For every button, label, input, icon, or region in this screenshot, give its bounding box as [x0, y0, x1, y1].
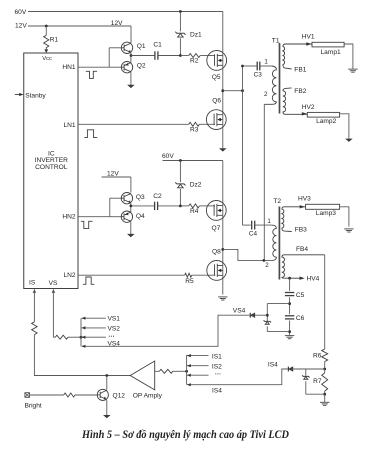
- svg-text:C5: C5: [296, 292, 305, 299]
- svg-text:T2: T2: [273, 198, 281, 205]
- wire VS4 line to bus: [82, 315, 251, 346]
- node C3 corner: [241, 65, 244, 68]
- svg-text:INVERTER: INVERTER: [35, 157, 68, 164]
- wire Q1 emitter to node: [130, 52, 132, 55]
- wire Lamp1 to ground: [344, 44, 353, 69]
- wire HN2 to base bus: [78, 216, 110, 218]
- zener on IS4 line: [302, 375, 309, 377]
- resistor R1 vertical: [45, 26, 47, 35]
- waveform pulse at HN1: [86, 71, 97, 78]
- wire VS pin down: [53, 289, 55, 337]
- IC U1 INVERTER CONTROL box: [24, 53, 78, 289]
- svg-text:HV4: HV4: [307, 276, 320, 283]
- wire resistor to Q12 base: [75, 394, 97, 396]
- node bridge2 midpoint: [221, 248, 224, 251]
- svg-text:FB2: FB2: [294, 88, 306, 95]
- svg-text:Bright: Bright: [25, 403, 42, 410]
- wire 12V stub ch2: [102, 176, 131, 178]
- resistor R2: [180, 55, 188, 57]
- transistor Q12: [97, 389, 108, 400]
- node Dz2 bottom gate node: [179, 205, 182, 208]
- resistor op-amp input: [155, 370, 160, 372]
- lamp Lamp3: [306, 204, 340, 209]
- ground arrow below Q4: [127, 234, 135, 237]
- label dots VS3: [109, 336, 110, 337]
- mosfet Q7: [206, 201, 226, 221]
- transistor Q4: [121, 211, 132, 222]
- svg-text:Q3: Q3: [136, 194, 145, 201]
- mosfet Q6: [206, 110, 226, 130]
- wire 12V rail horizontal: [28, 25, 131, 27]
- svg-text:Lamp2: Lamp2: [316, 118, 336, 125]
- wire Q3 emitter to node: [130, 203, 132, 206]
- wire Q4 emitter to node: [130, 206, 132, 212]
- svg-text:Dz1: Dz1: [190, 31, 202, 38]
- wire IS4 zener branch: [305, 369, 307, 376]
- transistor Q3: [121, 193, 132, 204]
- svg-text:VS2: VS2: [108, 325, 121, 332]
- wire Q4 collector down: [130, 221, 132, 234]
- resistor R6: [324, 255, 326, 349]
- svg-text:FB1: FB1: [294, 67, 306, 74]
- arrow HV4: [300, 277, 305, 280]
- arrow IS4 at bus: [187, 383, 191, 386]
- lamp Lamp2: [307, 112, 339, 117]
- wire base bus Q3 Q4: [109, 198, 111, 217]
- wire C5 to C6 junction: [289, 297, 291, 314]
- svg-text:VS: VS: [49, 280, 58, 287]
- svg-text:IS2: IS2: [212, 363, 222, 370]
- wire base bus Q1 Q2: [108, 48, 110, 67]
- svg-text:12V: 12V: [107, 170, 119, 177]
- arrow HV3: [300, 205, 305, 208]
- resistor R4: [180, 205, 188, 207]
- svg-text:12V: 12V: [15, 23, 27, 30]
- node VS bus junction: [80, 336, 83, 339]
- resistor on IS line: [32, 322, 38, 335]
- svg-text:IS4: IS4: [212, 388, 222, 395]
- svg-text:T1: T1: [272, 38, 280, 45]
- wire VS3 line: [82, 336, 106, 338]
- wire to C3: [243, 65, 257, 67]
- svg-text:IS1: IS1: [212, 354, 222, 361]
- wire Q12 emitter down: [106, 400, 108, 415]
- pin VS arrow into IC: [52, 289, 55, 293]
- wire 60V channel2 stub: [163, 160, 223, 162]
- wire VS1 line: [82, 317, 106, 319]
- node T1 pin2 joins T2 pin2: [263, 259, 266, 262]
- svg-text:Vcc: Vcc: [42, 56, 52, 62]
- node HV4/C5 junction: [288, 277, 291, 280]
- wire zener branch bottom: [267, 331, 289, 333]
- transformer T2 secondary HV3-FB3: [282, 207, 306, 232]
- earth ground at Lamp3: [344, 228, 353, 230]
- wire Bright to resistor: [30, 394, 64, 396]
- node R6/R7/IS4 junction: [323, 368, 326, 371]
- diode on VS4 line: [249, 313, 251, 318]
- svg-text:C4: C4: [249, 231, 258, 238]
- svg-text:R6: R6: [313, 353, 322, 360]
- wire T1 pin2 vertical down to T2 pin2: [263, 104, 265, 260]
- transformer T1 core: [279, 43, 281, 114]
- svg-text:Hình 5 – Sơ đồ nguyên lý mạch: Hình 5 – Sơ đồ nguyên lý mạch cao áp Tiv…: [81, 428, 290, 441]
- svg-text:1: 1: [264, 59, 268, 66]
- svg-text:R2: R2: [190, 58, 199, 65]
- svg-text:R5: R5: [185, 278, 194, 285]
- wire IS4 zener bottom to R7 bottom: [306, 393, 325, 395]
- earth ground below Q8: [218, 296, 227, 298]
- ground arrow below Q12: [103, 415, 111, 418]
- wire node to C1: [131, 55, 154, 57]
- wire C3 to T1 pin1: [260, 65, 271, 67]
- zener Dz1: [179, 12, 181, 32]
- transistor Q2: [121, 61, 132, 72]
- svg-text:HV3: HV3: [298, 195, 311, 202]
- transformer T1 secondary HV1-FB1: [283, 44, 312, 69]
- wire IS to op-amp output: [34, 335, 130, 376]
- resistor R3 on LN1 line: [78, 123, 189, 125]
- svg-text:CONTROL: CONTROL: [35, 164, 68, 171]
- label dots IS3: [215, 373, 216, 374]
- wire bridge2 midpoint to T2 pin2: [223, 249, 272, 260]
- svg-text:HV1: HV1: [302, 34, 315, 41]
- node VS4 tap: [266, 314, 269, 317]
- svg-text:60V: 60V: [15, 9, 27, 16]
- op-amp U2 triangle: [130, 361, 155, 390]
- svg-text:C1: C1: [153, 42, 162, 49]
- svg-text:HV2: HV2: [302, 104, 315, 111]
- svg-text:Stanby: Stanby: [25, 92, 46, 99]
- svg-text:VS1: VS1: [108, 316, 121, 323]
- pin IS arrow into IC: [33, 289, 36, 293]
- svg-text:Q8: Q8: [212, 248, 221, 255]
- node Dz1 top on 60V rail: [179, 10, 182, 13]
- wire IS3 line: [187, 374, 209, 376]
- pin Stanby arrow: [15, 94, 22, 96]
- capacitor C1: [154, 51, 156, 59]
- mosfet Q5: [207, 51, 227, 71]
- arrow HV2: [302, 112, 307, 115]
- svg-text:FB4: FB4: [296, 246, 308, 253]
- svg-text:R3: R3: [190, 126, 199, 133]
- arrow HV1: [306, 42, 311, 45]
- wire Q12 collector up: [106, 376, 108, 390]
- svg-text:HN1: HN1: [62, 64, 76, 71]
- earth ground at Lamp1: [348, 68, 357, 70]
- node Q12 collector tap: [105, 374, 108, 377]
- wire junction left to zener branch: [267, 303, 289, 305]
- node C5/C6 junction: [288, 302, 291, 305]
- wire 60V rail horizontal: [28, 11, 223, 13]
- ground arrow at Lamp2: [345, 139, 353, 142]
- wire 12V down to Q3 collector: [130, 177, 132, 193]
- wire midpoint vertical to C3 and C4: [242, 66, 244, 225]
- wire node to C2: [131, 205, 154, 207]
- svg-text:IS: IS: [29, 280, 36, 287]
- wire IS pin down: [33, 289, 35, 322]
- ground arrow bridge1: [219, 148, 227, 151]
- svg-text:12V: 12V: [111, 20, 123, 27]
- arrow VS4 at bus: [82, 345, 86, 348]
- node midpoint tap corner: [241, 89, 244, 92]
- svg-text:Q5: Q5: [212, 74, 221, 81]
- svg-text:C6: C6: [296, 315, 305, 322]
- wire 12V down to Q1 collector: [130, 26, 132, 42]
- wire IS4 line from bus: [187, 369, 288, 385]
- transformer T2 secondary FB4-HV4: [282, 255, 325, 278]
- waveform pulse at LN1: [84, 130, 97, 138]
- svg-text:LN1: LN1: [63, 122, 75, 129]
- capacitor C5: [289, 278, 291, 291]
- svg-text:1: 1: [267, 218, 271, 225]
- wire IS2 line: [187, 365, 209, 367]
- zener on VS4 divider: [264, 320, 271, 322]
- wire VS2 line: [82, 327, 106, 329]
- wire Lamp2 to ground: [340, 114, 349, 139]
- resistor on Bright line: [64, 393, 75, 397]
- waveform pulse at LN2: [83, 277, 94, 284]
- capacitor C4: [243, 224, 251, 226]
- svg-text:OP Amply: OP Amply: [133, 392, 163, 399]
- resistor on VS line: [55, 335, 68, 339]
- wire C1 to Dz1 node: [158, 55, 180, 57]
- svg-text:Q1: Q1: [137, 43, 146, 50]
- svg-text:LN2: LN2: [63, 272, 75, 279]
- svg-text:Lamp3: Lamp3: [316, 210, 336, 217]
- capacitor C6: [285, 315, 294, 317]
- svg-text:C3: C3: [254, 71, 263, 78]
- svg-text:Lamp1: Lamp1: [321, 49, 341, 56]
- transformer T2 primary winding: [271, 225, 276, 260]
- wire bridge1 midpoint tap: [223, 90, 243, 92]
- transformer T1 primary winding: [264, 66, 276, 104]
- wire Q2 emitter to node: [130, 56, 132, 63]
- wire C4 to T2 pin1: [255, 224, 271, 226]
- svg-text:2: 2: [264, 91, 268, 98]
- waveform pulse at HN2: [81, 221, 93, 228]
- wire VS4 tap to diode: [255, 314, 267, 316]
- wire IS4 diode to R6 junction: [293, 368, 325, 370]
- wire zener branch vertical top: [266, 304, 268, 321]
- mosfet Q8: [207, 261, 227, 281]
- zener Dz2: [179, 161, 181, 183]
- wire C6 down to ground: [289, 321, 291, 336]
- terminal Bright input: [25, 393, 30, 398]
- wire HN1 to base bus: [78, 66, 109, 68]
- lamp Lamp1: [312, 42, 344, 47]
- wire Q2 collector down: [130, 72, 132, 85]
- wire 60V ch2 rail down through Q7 Q8 bridge2: [222, 161, 224, 295]
- node Dz2 top: [179, 159, 182, 162]
- wire 60V rail down through Q5 Q6 bridge1: [222, 12, 224, 149]
- svg-text:Q12: Q12: [113, 392, 126, 399]
- resistor R7: [324, 369, 326, 373]
- svg-text:IS4: IS4: [268, 361, 278, 368]
- transformer T1 secondary FB2-HV2: [283, 88, 307, 114]
- diode on IS4 line: [287, 367, 289, 372]
- earth ground below C6: [285, 335, 294, 337]
- ground arrow below Q2: [127, 85, 135, 88]
- svg-text:Q7: Q7: [212, 225, 221, 232]
- wire IS1 line: [187, 355, 209, 357]
- node bridge1 midpoint at rail: [221, 89, 224, 92]
- node C6 bottom loop junction: [288, 330, 291, 333]
- wire VS resistor to bus: [68, 336, 81, 338]
- svg-text:HN2: HN2: [62, 213, 76, 220]
- transformer T2 core: [278, 207, 280, 280]
- svg-text:VS4: VS4: [108, 340, 121, 347]
- transistor Q1: [121, 42, 132, 53]
- capacitor C3: [256, 62, 258, 71]
- wire C2 to Dz2 node: [158, 205, 180, 207]
- svg-text:Q6: Q6: [212, 98, 221, 105]
- wire Lamp3 to ground: [340, 207, 349, 227]
- svg-text:Q2: Q2: [137, 63, 146, 70]
- wire R7 bottom to ground: [324, 394, 326, 402]
- node Q3/Q4 emitters junction: [130, 205, 133, 208]
- node R7 bottom junction: [323, 393, 326, 396]
- pin Vcc arrow into IC: [44, 49, 48, 53]
- resistor R5 on LN2 line: [78, 274, 185, 276]
- svg-text:R1: R1: [50, 36, 59, 43]
- node Q1/Q2 emitters junction: [130, 54, 133, 57]
- svg-text:FB3: FB3: [295, 227, 307, 234]
- svg-text:C2: C2: [153, 193, 162, 200]
- svg-text:VS4: VS4: [233, 307, 246, 314]
- wire VS bus vertical: [80, 318, 82, 346]
- svg-text:2: 2: [265, 262, 269, 269]
- svg-text:Dz2: Dz2: [190, 182, 202, 189]
- node Dz1 bottom gate node: [179, 54, 182, 57]
- node op-amp resistor to IS bus: [185, 370, 188, 373]
- svg-text:R4: R4: [190, 208, 199, 215]
- node junction 12V/R1: [45, 25, 48, 28]
- svg-text:60V: 60V: [162, 153, 174, 160]
- svg-text:Q4: Q4: [136, 213, 145, 220]
- svg-text:R7: R7: [313, 378, 322, 385]
- capacitor C2: [154, 202, 156, 210]
- earth ground below R7: [320, 401, 329, 403]
- wire IS bus vertical: [186, 355, 188, 385]
